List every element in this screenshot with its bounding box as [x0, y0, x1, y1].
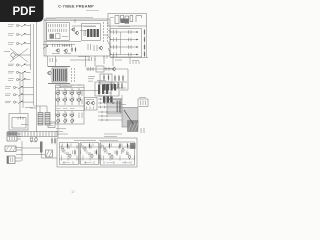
wire psu rail 2 — [59, 158, 134, 160]
resistor R23 — [144, 44, 145, 50]
wire fan — [108, 36, 111, 40]
label net B25 — [57, 133, 68, 135]
resistor R74 — [96, 149, 97, 155]
label input A1 — [8, 25, 14, 27]
small box aux — [48, 122, 55, 128]
bus bar top — [48, 66, 70, 68]
psu labels — [62, 162, 130, 164]
bus bar bottom — [48, 83, 70, 85]
transistor Q2 — [75, 31, 79, 36]
input jack JA4 — [16, 64, 20, 66]
label r3x — [86, 68, 94, 70]
op-amp U2 outline — [95, 82, 111, 96]
input jack JB2 — [13, 94, 17, 96]
psu fine parts 2 — [65, 151, 127, 155]
tone unit parts — [115, 16, 133, 24]
label col 1 — [56, 84, 61, 86]
label stage — [62, 45, 70, 47]
resistor R72 — [74, 149, 75, 155]
label tb — [21, 124, 28, 126]
regulator dark block — [130, 143, 136, 149]
wire drop 3 — [94, 56, 96, 66]
transistor Q28 — [128, 155, 130, 160]
wire relay out 2 — [104, 136, 117, 138]
label U1 out — [78, 56, 90, 58]
input jack JB1 — [13, 86, 17, 88]
tick — [102, 115, 107, 117]
input jack JA2 — [16, 33, 20, 35]
transistor pair column b1 — [56, 111, 60, 124]
wire psu rail 1 — [59, 146, 134, 148]
label input A5 — [8, 71, 14, 73]
capacitor C3 — [84, 30, 86, 36]
capacitor C32 — [40, 142, 43, 153]
input jack JB3 — [13, 101, 17, 103]
input jack JA3 — [16, 42, 20, 44]
tone unit bracket — [136, 16, 142, 23]
wire harness to psu — [22, 147, 40, 149]
capacitor C41 — [66, 153, 69, 154]
rotary switch SW1 — [11, 53, 18, 60]
wire left main bus — [36, 20, 38, 132]
label col 4 — [77, 84, 82, 86]
power supply board outline — [57, 138, 137, 167]
ac inlet recess — [12, 118, 26, 129]
output parts cluster — [88, 44, 97, 51]
resistor R11 — [114, 30, 117, 34]
op-amp U2 body — [98, 85, 108, 95]
wire left drop 2 — [22, 72, 24, 108]
connector CN10 pins — [17, 134, 21, 139]
label col b2 — [63, 108, 68, 110]
output arrow A1 — [136, 31, 138, 33]
output arrow A3 — [136, 46, 138, 48]
label u2 — [97, 80, 106, 82]
parts cluster top — [89, 56, 107, 62]
resistor R14 — [114, 52, 117, 56]
label k2 — [62, 36, 68, 38]
wire ladder row — [111, 46, 138, 48]
node N4 — [110, 54, 111, 55]
parts row mid 2 — [106, 67, 109, 71]
resistor R36 — [108, 74, 109, 80]
wire board left rail — [45, 19, 47, 56]
pot assembly VR2 — [52, 68, 67, 82]
label tone in — [110, 17, 114, 19]
resistor chain R10 — [74, 68, 76, 82]
wire xfmr feed — [34, 105, 48, 107]
label rp3 — [52, 53, 60, 55]
inlet pins — [18, 117, 23, 120]
transistor Q26 — [111, 155, 113, 160]
transistor Q27 — [122, 148, 124, 153]
wire to right edge — [110, 57, 148, 59]
wire harness vertical — [21, 141, 23, 161]
capacitor C31 — [54, 137, 55, 144]
transistor Q21 — [62, 148, 64, 153]
switch contact SB3 — [18, 101, 23, 104]
input jack JA1 — [16, 24, 20, 26]
junction marks — [108, 98, 114, 104]
wire jack tick — [23, 94, 34, 96]
chassis panel outline — [9, 114, 28, 131]
diode D1 — [30, 137, 33, 143]
label input A3 — [8, 43, 14, 45]
transistor Q4 — [64, 49, 68, 54]
wire fan — [108, 42, 111, 47]
label col 2 — [63, 84, 68, 86]
wire mains link — [16, 154, 45, 156]
wire bus row — [98, 98, 122, 100]
connector CN11 — [5, 146, 22, 152]
op-amp U2 outline — [99, 82, 119, 96]
wire jack tick — [23, 87, 34, 89]
resistor row RP1 — [49, 24, 67, 27]
switch contact SA2 — [21, 33, 26, 36]
wire ladder row — [111, 54, 138, 56]
label q34 — [64, 53, 71, 55]
subtitle text — [86, 9, 99, 11]
wire cross 1 — [10, 49, 28, 63]
label input A4 — [8, 64, 14, 66]
wire bus row — [98, 106, 122, 108]
driver IC U3 body — [103, 97, 113, 103]
tick — [102, 111, 107, 113]
thermistor TH1 — [46, 150, 53, 157]
hp parts — [87, 107, 94, 110]
label u1 — [84, 26, 96, 28]
wire matrix out — [98, 115, 122, 117]
wire drop 2 — [85, 56, 87, 67]
wire jack tick — [26, 71, 31, 73]
resistor R75 — [109, 143, 110, 149]
wire jack tick — [26, 64, 31, 66]
label t2 — [88, 78, 94, 80]
band resistors right — [79, 90, 82, 118]
label sw1 — [4, 51, 10, 53]
wire under select board — [43, 44, 75, 46]
svg-text:C-7/BEE PREAMP: C-7/BEE PREAMP — [58, 5, 94, 9]
transformer T1 — [38, 113, 50, 126]
relay K2 — [56, 34, 61, 39]
label input B3 — [5, 101, 11, 103]
switch contact SA3 — [21, 42, 26, 45]
wire fan — [108, 30, 111, 32]
resistor R73 — [89, 143, 90, 149]
wire mid link — [120, 89, 128, 91]
capacitor C42 — [88, 153, 91, 154]
capacitor C30 — [51, 137, 52, 144]
transistor Q3 — [56, 48, 60, 53]
label sel — [46, 17, 56, 19]
svg-text:17: 17 — [71, 190, 75, 194]
output filter bank outline — [110, 29, 142, 58]
wire drop 4 — [103, 56, 105, 64]
input jack JA5 — [16, 71, 20, 73]
resistor R33 — [122, 75, 123, 82]
wire xfmr top 1 — [39, 106, 41, 113]
label cn5 — [139, 97, 146, 99]
label filter bank — [118, 26, 130, 28]
node N1 — [110, 31, 111, 32]
relay K1 — [50, 34, 55, 39]
switch contact SA5 — [21, 71, 26, 74]
node N2 — [110, 39, 111, 40]
diode D2 — [35, 137, 38, 143]
preamp board outline — [44, 19, 110, 56]
wire matrix out — [98, 119, 122, 121]
transistor Q22 — [69, 154, 71, 159]
psu section 2 — [81, 143, 99, 165]
transistor Q19 — [91, 101, 95, 106]
label t3 — [88, 80, 93, 82]
wire jack tick — [26, 34, 31, 36]
resistor R71 — [67, 143, 68, 149]
capacitor C44 — [126, 153, 129, 154]
op-amp U1 body — [87, 29, 99, 37]
node N3 — [110, 46, 111, 47]
wire vertical drop — [74, 19, 76, 23]
wire band1 bottom bus — [56, 105, 85, 107]
wire Q stage — [72, 25, 96, 27]
wire jack tick — [26, 25, 31, 27]
transistor Q25 — [104, 148, 106, 153]
wire supply drop — [40, 153, 42, 159]
wire to relay block — [121, 95, 123, 108]
label col 3 — [70, 84, 75, 86]
tone control unit outline — [108, 14, 147, 27]
parts row mid — [88, 67, 93, 71]
wire left bus 3 — [30, 24, 32, 70]
transistor pair column 4 — [77, 88, 81, 105]
connector CN12 — [7, 156, 21, 164]
terminal strip TB1 ticks — [10, 132, 55, 137]
label input A2 — [8, 34, 14, 36]
label net B24 — [56, 130, 63, 132]
label edge — [132, 60, 139, 62]
capacitor C43 — [108, 154, 111, 155]
bank tie line — [120, 32, 122, 55]
headphone amp outline — [85, 98, 98, 111]
wire fan — [108, 48, 111, 55]
resistor R78 — [119, 143, 120, 149]
label input B2 — [5, 94, 11, 96]
psu wire verticals — [80, 143, 100, 164]
wire top bus — [44, 20, 108, 22]
transistor Q5b — [99, 46, 103, 51]
wire right edge bus — [146, 26, 148, 58]
label ry — [120, 104, 126, 106]
relay block RY1 — [122, 108, 138, 132]
resistor R12 — [114, 37, 117, 41]
resistor R35 — [103, 74, 104, 80]
resistor R8 — [75, 47, 76, 52]
transistor pair column 3 — [70, 88, 74, 105]
resistor R41 — [113, 82, 114, 89]
terminal strip TB1 — [8, 132, 57, 137]
transistor Q18 — [86, 101, 90, 106]
connector CN5 — [138, 99, 148, 107]
wire supply link — [41, 157, 57, 159]
resistor R31 — [114, 75, 115, 82]
relay aux ticks — [141, 128, 144, 133]
label cn — [25, 107, 33, 109]
psu fine parts 3 — [63, 144, 134, 165]
wire U2 out — [111, 87, 126, 89]
resistor R21 — [144, 29, 145, 35]
output arrow A4 — [136, 54, 138, 56]
label psu title 2 — [99, 139, 118, 141]
label u2 pins — [102, 92, 112, 94]
switch contact SA6 — [21, 78, 26, 81]
label input B1 — [5, 87, 11, 89]
transistor Q5 — [47, 71, 51, 76]
resistor chain R6 — [107, 22, 109, 42]
label hp — [86, 98, 94, 100]
tick — [102, 119, 107, 121]
transistor Q6 — [112, 67, 116, 72]
transistor pair column 1 — [56, 88, 60, 105]
resistor R79 — [98, 154, 99, 160]
transistor pair column 2 — [63, 88, 67, 105]
switch contact SA1 — [21, 24, 26, 27]
wire jack tick — [23, 101, 34, 103]
resistor R7 — [71, 47, 72, 52]
filter F2 — [96, 66, 104, 72]
eq module outline — [47, 23, 70, 41]
wire center vertical — [55, 56, 57, 67]
volume board outline — [56, 85, 85, 124]
resistor R32 — [118, 75, 119, 82]
psu fine parts — [62, 145, 135, 161]
capacitor C13 — [129, 45, 132, 49]
transistor Q24 — [91, 154, 93, 159]
wire sw out — [18, 54, 31, 56]
wire comb bus — [56, 90, 98, 92]
transistor Q1 — [71, 27, 75, 32]
wire mid drop — [127, 69, 129, 90]
label f2 — [115, 59, 122, 61]
label psu title — [74, 139, 96, 141]
connector CN10 — [7, 132, 17, 141]
wire ladder row — [111, 31, 138, 33]
resistor chain R5 — [103, 22, 105, 42]
label input A6 — [8, 79, 14, 81]
resistor chain R9 — [71, 68, 73, 82]
label d12 — [30, 141, 37, 143]
label col b3 — [70, 108, 75, 110]
transistor pair column b3 — [70, 111, 74, 124]
wire drop — [112, 55, 114, 66]
connector CN5 pins — [141, 101, 146, 106]
wire mid bus — [86, 68, 128, 70]
label q12 — [80, 30, 88, 32]
label board title — [56, 17, 93, 19]
label col b1 — [56, 108, 61, 110]
aux marks — [50, 124, 54, 126]
psu section 3 — [101, 142, 135, 165]
wire band1 bus — [56, 87, 85, 89]
capacitor C11 — [129, 30, 132, 34]
resistor row RP3 — [53, 44, 72, 47]
input jack JA6 — [16, 79, 20, 81]
switch contact SA4 — [21, 64, 26, 67]
wire matrix out — [98, 111, 122, 113]
driver board DB1 — [107, 99, 121, 114]
wire pot down — [59, 84, 61, 88]
wire board to pot — [47, 56, 49, 67]
capacitor C12 — [129, 38, 132, 42]
label u1 — [104, 34, 109, 36]
capacitor C45 — [132, 146, 135, 147]
wire left bus 2 — [33, 24, 35, 105]
wire relay out 1 — [104, 133, 122, 135]
wire mid link — [70, 59, 90, 61]
ic module outline — [82, 24, 101, 41]
wire link power — [30, 107, 37, 109]
resistor R43 — [121, 82, 122, 89]
resistor R13 — [114, 45, 117, 49]
parts under board — [50, 58, 56, 62]
wire left drop 1 — [19, 72, 21, 114]
wire band2 bus — [56, 110, 85, 112]
transistor pair column b2 — [63, 111, 67, 124]
wire bus row — [98, 102, 122, 104]
wire branch — [129, 58, 131, 65]
wire cross 2 — [10, 49, 28, 63]
junction arrow — [43, 46, 48, 49]
resistor R77 — [127, 143, 128, 149]
wire xfmr top 2 — [46, 106, 48, 113]
regulator VR1 — [100, 74, 112, 84]
label t1 — [88, 76, 95, 78]
wire jack tick — [26, 79, 31, 81]
label r4x — [120, 81, 127, 83]
capacitor C14 — [129, 53, 132, 57]
PDF badge — [0, 0, 44, 22]
label comb — [60, 86, 72, 88]
wire bus row ext — [114, 98, 123, 100]
tone unit dark chip — [121, 19, 129, 24]
marks near edge — [133, 61, 139, 64]
resistor R76 — [116, 150, 117, 156]
wire down to supply — [57, 122, 59, 138]
label vr1 — [104, 68, 112, 70]
wire board bus — [44, 41, 81, 43]
psu section 1 — [60, 143, 79, 165]
bus ticks — [101, 98, 105, 108]
wire ladder row — [111, 39, 138, 41]
switch contact SB1 — [18, 86, 23, 89]
svg-text:PDF: PDF — [13, 6, 36, 18]
resistor R22 — [144, 36, 145, 42]
transistor Q23 — [84, 147, 86, 152]
switch contact SB2 — [18, 94, 23, 97]
op-amp U2 body — [104, 84, 117, 91]
resistor row RP2 — [49, 29, 67, 32]
resistor R42 — [117, 82, 118, 89]
wire jack tick — [26, 43, 31, 45]
label net B23 — [56, 128, 66, 130]
resistor R24 — [144, 51, 145, 57]
output arrow A2 — [136, 39, 138, 41]
